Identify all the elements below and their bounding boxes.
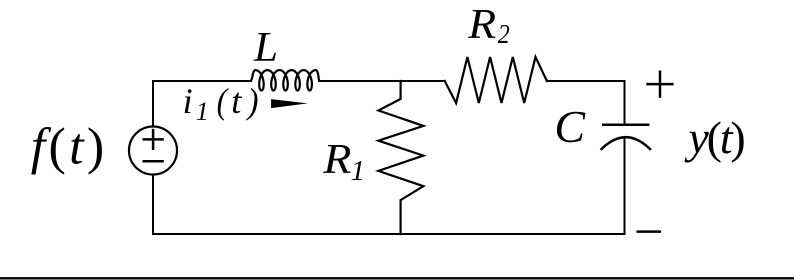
wire left vertical bottom [152, 175, 154, 235]
svg-text:1: 1 [196, 97, 209, 126]
voltage source f(t) [129, 127, 177, 175]
resistor R2 [445, 57, 547, 103]
svg-text:R: R [322, 137, 351, 183]
wire bottom segment [153, 233, 625, 235]
wire right vertical bottom [624, 139, 626, 234]
capacitor C top plate [602, 123, 650, 126]
svg-text:(: ( [217, 81, 229, 121]
svg-text:2: 2 [498, 19, 510, 49]
capacitor C curved plate [602, 137, 651, 149]
svg-text:L: L [253, 25, 278, 71]
svg-text:y(t): y(t) [684, 112, 744, 163]
current arrow i1 [271, 99, 308, 108]
output minus sign [636, 230, 661, 233]
wire top-left segment [153, 81, 251, 126]
inductor L coil [251, 70, 319, 90]
wire top-middle segment [319, 80, 444, 82]
svg-text:1: 1 [351, 155, 366, 187]
wire top-right segment [547, 81, 625, 125]
svg-text:): ) [246, 81, 259, 121]
svg-text:t: t [231, 81, 242, 121]
output plus sign [646, 71, 673, 98]
resistor R1 [378, 81, 423, 234]
svg-text:f(t): f(t) [31, 118, 108, 175]
svg-text:i: i [183, 81, 193, 121]
svg-text:C: C [554, 101, 586, 152]
label i1(t) [183, 81, 259, 126]
svg-text:R: R [467, 2, 496, 48]
